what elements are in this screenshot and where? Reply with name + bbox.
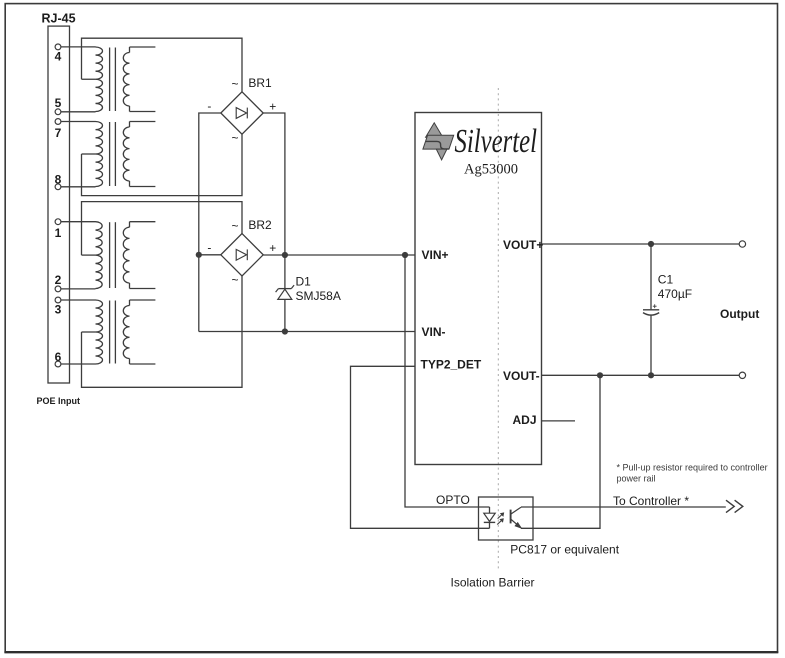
- connector J1 RJ-45 label: [42, 12, 76, 26]
- pin 8 terminal: [55, 172, 62, 189]
- svg-text:-: -: [207, 99, 211, 113]
- svg-text:6: 6: [55, 350, 62, 364]
- wire T2 center tap: [82, 153, 96, 155]
- wire VOUT- rail: [542, 374, 740, 376]
- wire pin 5 to transformer: [61, 111, 96, 113]
- svg-text:-: -: [207, 241, 211, 255]
- wire T4 center tap: [82, 331, 96, 333]
- svg-text:VOUT+: VOUT+: [503, 238, 543, 252]
- node VIN+ D1 junction: [282, 252, 288, 258]
- wire ADJ stub: [542, 420, 576, 422]
- svg-text:~: ~: [232, 273, 239, 287]
- opto U2 body: [479, 497, 534, 540]
- pin 7 terminal: [55, 119, 62, 140]
- svg-text:~: ~: [232, 219, 239, 233]
- wire VIN- rail: [199, 331, 415, 333]
- terminal output plus: [739, 241, 745, 247]
- svg-text:OPTO: OPTO: [436, 493, 470, 507]
- pin label VOUT+: [503, 238, 543, 252]
- wire VIN+ to opto LED anode: [405, 255, 490, 507]
- svg-text:* Pull-up resistor required to: * Pull-up resistor required to controlle…: [617, 462, 768, 472]
- wire T3 center tap: [82, 254, 96, 256]
- wire T4 tap to BR2 bottom: [82, 276, 243, 387]
- pin 5 terminal: [55, 96, 62, 115]
- label Ag53000: [464, 162, 518, 178]
- wire VIN+ rail: [263, 254, 415, 256]
- svg-text:5: 5: [55, 96, 62, 110]
- svg-text:VIN-: VIN-: [422, 325, 446, 339]
- wire VOUT+ rail: [542, 243, 740, 245]
- wire opto collector to controller: [521, 506, 726, 508]
- capacitor C1: [643, 244, 659, 375]
- svg-text:BR1: BR1: [248, 76, 272, 90]
- label SMJ58A: [296, 289, 341, 303]
- wire pin 1 to transformer: [61, 221, 96, 223]
- diode D1 SMJ58A: [276, 255, 295, 332]
- svg-text:Ag53000: Ag53000: [464, 162, 518, 178]
- label Output: [720, 307, 759, 321]
- bridge rectifier BR2: [207, 218, 276, 287]
- wire T2 tap to BR1 bottom: [82, 134, 243, 195]
- svg-text:POE Input: POE Input: [37, 396, 81, 406]
- svg-text:VOUT-: VOUT-: [503, 369, 540, 383]
- opto U2 phototransistor: [511, 507, 522, 528]
- node BR2 minus junction: [196, 252, 202, 258]
- node C1 top junction: [648, 241, 654, 247]
- wire pin 4 to transformer: [61, 46, 96, 48]
- svg-text:3: 3: [55, 303, 62, 317]
- pin 3 terminal: [55, 297, 62, 316]
- label PC817 or equivalent: [510, 543, 619, 557]
- label Isolation Barrier: [451, 575, 535, 589]
- pin 1 terminal: [55, 219, 62, 240]
- svg-text:power rail: power rail: [617, 473, 656, 483]
- svg-text:SMJ58A: SMJ58A: [296, 289, 341, 303]
- svg-text:470µF: 470µF: [658, 287, 692, 301]
- svg-text:4: 4: [55, 50, 62, 64]
- connector J1 RJ-45 body: [48, 26, 70, 383]
- pin label VOUT-: [503, 369, 540, 383]
- svg-text:8: 8: [55, 172, 62, 186]
- node C1 bottom junction: [648, 372, 654, 378]
- opto U2 LED: [484, 507, 495, 528]
- svg-text:+: +: [269, 241, 276, 255]
- transformer T1: [96, 47, 156, 112]
- svg-text:Output: Output: [720, 307, 759, 321]
- svg-text:2: 2: [55, 273, 62, 287]
- svg-text:To Controller *: To Controller *: [613, 494, 689, 508]
- label POE Input: [37, 396, 81, 406]
- svg-text:~: ~: [232, 131, 239, 145]
- transformer T3: [96, 222, 156, 289]
- svg-text:1: 1: [55, 226, 62, 240]
- label 470uF: [658, 287, 692, 301]
- Silvertel logo text: [455, 123, 538, 160]
- svg-text:TYP2_DET: TYP2_DET: [421, 357, 482, 371]
- note pull-up resistor: [617, 462, 768, 483]
- wire BR1 minus to VIN- rail: [199, 113, 221, 332]
- pin label TYP2_DET: [421, 357, 482, 371]
- wire pin 8 to transformer: [61, 186, 96, 188]
- pin 4 terminal: [55, 44, 62, 64]
- wire BR1 plus to VIN+ rail: [263, 113, 285, 255]
- node VIN- D1 junction: [282, 328, 288, 334]
- svg-text:C1: C1: [658, 273, 674, 287]
- wire BR2 minus lead: [199, 254, 221, 256]
- label D1: [296, 275, 312, 289]
- svg-text:VIN+: VIN+: [422, 248, 449, 262]
- to-controller arrow: [726, 500, 743, 512]
- node VIN+ opto branch junction: [402, 252, 408, 258]
- wire T1 center tap: [82, 78, 96, 80]
- wire opto emitter to VOUT-: [521, 375, 600, 528]
- svg-text:RJ-45: RJ-45: [42, 12, 76, 26]
- label C1: [658, 273, 674, 287]
- svg-text:Silvertel: Silvertel: [455, 123, 538, 160]
- wire pin 6 to transformer: [61, 363, 96, 365]
- wire pin 2 to transformer: [61, 288, 96, 290]
- bridge rectifier BR1: [207, 76, 276, 145]
- svg-text:ADJ: ADJ: [513, 413, 537, 427]
- label To Controller: [613, 494, 689, 508]
- pin label VIN-: [422, 325, 446, 339]
- terminal output minus: [739, 372, 745, 378]
- svg-text:Isolation Barrier: Isolation Barrier: [451, 575, 535, 589]
- svg-text:7: 7: [55, 126, 62, 140]
- transformer T2: [96, 122, 156, 187]
- wire pin 3 to transformer: [61, 299, 96, 301]
- pin label VIN+: [422, 248, 449, 262]
- op-amp U1 Ag53000 module body: [415, 113, 542, 465]
- svg-text:~: ~: [232, 77, 239, 91]
- node VOUT- opto junction: [597, 372, 603, 378]
- pin 2 terminal: [55, 273, 62, 292]
- svg-text:PC817 or equivalent: PC817 or equivalent: [510, 543, 619, 557]
- transformer T4: [96, 300, 156, 364]
- isolation barrier dashed line: [497, 88, 499, 570]
- svg-text:D1: D1: [296, 275, 312, 289]
- svg-text:+: +: [269, 99, 276, 113]
- pin 6 terminal: [55, 350, 62, 367]
- wire T3 tap to BR2 top: [82, 202, 243, 256]
- pin label ADJ: [513, 413, 537, 427]
- wire pin 7 to transformer: [61, 121, 96, 123]
- opto U2 light arrows: [497, 513, 504, 525]
- Silvertel logo mark: [423, 123, 454, 160]
- wire T1 tap to BR1 top: [82, 38, 243, 92]
- label OPTO: [436, 493, 470, 507]
- wire TYP2_DET to opto LED cathode: [351, 366, 490, 528]
- svg-text:BR2: BR2: [248, 218, 272, 232]
